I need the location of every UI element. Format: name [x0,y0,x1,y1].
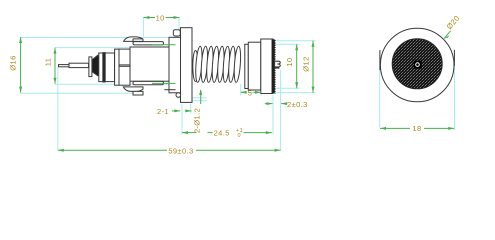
dim 10 top [143,17,179,19]
washer after spring [245,44,249,88]
dim 5 [241,91,247,93]
svg-text:5: 5 [248,88,253,97]
needle rod [69,63,89,67]
ext 59 left (needle tip) [57,68,59,151]
bottom latch hump [123,87,143,92]
dim 24.5 [182,132,197,134]
needle tip [59,65,70,67]
ext 11 bottom [55,83,180,85]
center contact [414,61,422,69]
ext 5 left [240,84,242,96]
svg-text:Ø12: Ø12 [301,56,310,71]
mid lines on cylinder 3 [119,64,130,66]
ext 24.5 left / 2-1 left [181,104,183,135]
knurled face circle [392,39,442,89]
right view: ext 18 left (tangent) [379,70,381,128]
right view: ext 18 right (tangent) [454,66,456,130]
spring coils [195,46,203,82]
bottom c-ring [176,93,181,98]
svg-text:2-Ø1.2: 2-Ø1.2 [193,108,202,133]
main body [130,47,169,81]
text 18 [410,124,424,133]
text 10 top [155,13,166,22]
flange plate B [181,28,193,103]
svg-text:2-1: 2-1 [157,107,169,116]
ext 24.5 right / 2pm left [272,95,274,135]
dim 10 right [296,44,298,88]
svg-text:2±0.3: 2±0.3 [287,100,308,109]
ext clip wire top [177,97,207,99]
ext phi12 top [261,40,316,42]
top c-clip [173,30,180,36]
ext phi12 bottom [248,92,316,94]
ext 10-top left [142,18,144,37]
top latch hump [124,37,143,42]
spring first coil [193,51,198,82]
serrated face [272,40,276,94]
cylinder 1 [99,53,103,82]
ext 11 top [55,47,129,49]
leader phi20 [444,31,450,39]
cylinder 2 [105,53,114,82]
dim 18 [380,127,454,129]
svg-text:18: 18 [412,124,421,133]
dim 2-1 arrows [172,110,180,112]
cylinder 3 [119,49,130,85]
collar plate A [169,37,181,93]
outer circle [380,28,454,102]
dim phi16 [20,37,22,93]
top latch arm [133,42,164,45]
ext 59 right (pin tip) [280,70,282,150]
svg-text:11: 11 [43,58,52,67]
bottom latch arm [133,81,164,84]
ext 10-right top [249,43,300,45]
ext 2-1 right [190,104,192,114]
leader 2-phi1.2 [200,90,202,104]
svg-text:10: 10 [156,13,165,22]
contact pin [275,61,281,68]
dim 2+-0.3 arrows [265,103,273,105]
plate before cone [89,57,92,77]
left tangent flat (black part) [379,50,381,70]
dim phi12 [312,41,314,93]
text 59+-0.3 [167,146,196,155]
step rings [115,49,119,85]
rubber cone (dark) [92,55,99,75]
right tangent flat (black part) [453,50,455,66]
ext phi16 bottom [21,92,143,94]
svg-text:0: 0 [238,133,241,139]
text 24.5 [214,128,243,139]
dim 11 [54,48,56,84]
svg-text:10: 10 [285,57,294,66]
nut big section [261,39,273,94]
ext 5 right [260,95,262,96]
ext 10-right bottom [249,87,300,89]
black ring [103,53,105,82]
ext 10-top right [178,18,180,30]
nut small section [248,42,260,90]
bottom clip line [164,89,175,91]
dim 59 [58,149,281,151]
ext clip wire bottom [183,100,207,102]
ext phi16 top [21,37,170,39]
centerline [86,64,113,66]
svg-text:24.5: 24.5 [214,129,230,138]
leader lines on latch arms [152,44,176,46]
svg-text:59±0.3: 59±0.3 [168,146,193,155]
svg-text:Ø16: Ø16 [9,55,18,70]
